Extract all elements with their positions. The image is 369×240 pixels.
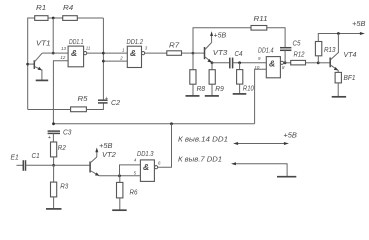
svg-text:R7: R7 bbox=[169, 41, 180, 50]
resistor R7 bbox=[167, 51, 182, 56]
svg-text:C4: C4 bbox=[235, 49, 243, 58]
transistor VT1 bbox=[28, 53, 43, 80]
resistor R2 bbox=[51, 142, 57, 157]
node VT4 collector on rail bbox=[337, 32, 340, 35]
ground (R9) bbox=[205, 95, 219, 97]
svg-text:&: & bbox=[143, 162, 149, 172]
resistor R1 bbox=[35, 16, 48, 21]
svg-text:&: & bbox=[269, 59, 275, 69]
wire junction down to R8 bbox=[192, 53, 194, 70]
wire R6 down bbox=[119, 176, 121, 183]
wire long horizontal bus y=123.3 bbox=[53, 123, 254, 125]
wire from R1/R4 node down to pin13 row bbox=[52, 18, 54, 53]
svg-text:К выв.7 DD1: К выв.7 DD1 bbox=[178, 154, 222, 163]
svg-text:13: 13 bbox=[61, 46, 66, 51]
node VT1 base on left rail bbox=[26, 63, 29, 66]
wire R3 to ground bbox=[53, 197, 55, 209]
resistor R10 bbox=[237, 70, 243, 85]
wire R13 top to +5V rail bbox=[317, 56, 319, 63]
wire C4 to DD1.4 pin9 bbox=[233, 62, 267, 64]
svg-text:DD1.3: DD1.3 bbox=[137, 149, 154, 158]
wire R12 to base node bbox=[306, 62, 319, 64]
ground (BF1) bbox=[332, 96, 346, 98]
wire C5 bottom to output node bbox=[284, 50, 286, 63]
power arrow +5V double bbox=[233, 142, 289, 145]
node C3 top bbox=[52, 122, 55, 125]
node DD1.3 output riser bbox=[170, 122, 173, 125]
capacitor C4 bbox=[230, 58, 233, 69]
wire node down to R3 bbox=[53, 165, 55, 182]
wire emitter down to R9 bbox=[211, 63, 213, 70]
svg-text:BF1: BF1 bbox=[344, 73, 356, 82]
svg-text:C2: C2 bbox=[111, 98, 121, 107]
capacitor C3 bbox=[48, 131, 60, 141]
svg-text:C1: C1 bbox=[32, 151, 40, 160]
op-amp gate DD1.4 bbox=[266, 57, 283, 78]
wire BF1 to ground bbox=[337, 83, 339, 97]
wire R5 to C2 bbox=[86, 103, 103, 110]
transistor VT3 bbox=[193, 43, 212, 63]
node C4/R10 bbox=[238, 61, 241, 64]
wire pin12 input of DD1.1 with drop to C3 column bbox=[53, 61, 68, 124]
wire R6 to ground bbox=[119, 198, 121, 210]
vertical net x=103.4 from top wire down to C2 bbox=[102, 18, 104, 100]
node DD1.4 output bbox=[284, 61, 287, 64]
resistor R8 bbox=[190, 70, 196, 85]
node R6/pin4 riser bbox=[118, 174, 121, 177]
svg-text:R12: R12 bbox=[294, 50, 306, 59]
wire R9 to ground bbox=[211, 84, 213, 96]
resistor R9 bbox=[209, 70, 215, 85]
resistor R12 bbox=[291, 60, 306, 65]
svg-text:+5В: +5В bbox=[352, 19, 366, 28]
svg-text:R1: R1 bbox=[36, 3, 46, 12]
svg-text:R8: R8 bbox=[197, 84, 206, 93]
op-amp gate DD1.1 bbox=[68, 46, 87, 67]
svg-text:R10: R10 bbox=[243, 83, 255, 92]
wire node to VT2 base bbox=[54, 164, 91, 166]
ground (R6) bbox=[112, 209, 127, 211]
svg-text:VT3: VT3 bbox=[213, 48, 228, 57]
node R7/R8/VT3/R11 bbox=[192, 52, 195, 55]
wire top-left loop: y=18 from x27.7 to x103.4 bbox=[28, 18, 104, 110]
node C1/R2/R3/base bbox=[52, 164, 55, 167]
svg-text:C5: C5 bbox=[293, 39, 302, 48]
wire to pin2 DD1.2 bbox=[103, 60, 127, 62]
svg-text:R4: R4 bbox=[63, 3, 73, 12]
svg-text:2: 2 bbox=[119, 56, 123, 61]
capacitor C1 bbox=[23, 160, 25, 171]
ground (R8) bbox=[186, 95, 200, 97]
wire C1 to node bbox=[26, 164, 54, 166]
wire DD1.2 output to R7 bbox=[145, 52, 167, 54]
svg-text:&: & bbox=[130, 48, 136, 58]
resistor R4 bbox=[63, 16, 78, 21]
wire DD1.1 output to vertical bus bbox=[87, 52, 104, 54]
wire node down to R10 bbox=[239, 63, 241, 70]
svg-text:R2: R2 bbox=[58, 143, 67, 152]
wire pin10 drop to long bus bbox=[255, 69, 267, 124]
ground (supply) bbox=[277, 176, 296, 178]
svg-text:DD1.4: DD1.4 bbox=[258, 45, 274, 54]
svg-text:VT4: VT4 bbox=[344, 50, 357, 59]
resistor R11 bbox=[251, 26, 267, 31]
transducer BF1 bbox=[335, 72, 341, 83]
svg-text:R5: R5 bbox=[78, 94, 89, 103]
node out11/in1 bbox=[102, 52, 105, 55]
wire riser to pin4 bbox=[120, 165, 141, 176]
wire pin13 input of DD1.1 bbox=[53, 52, 68, 54]
wire input E1 bbox=[17, 164, 24, 166]
svg-text:DD1.2: DD1.2 bbox=[127, 37, 144, 46]
wire C3 to R2 bbox=[52, 133, 54, 142]
node R12/R13/VT4 bbox=[317, 61, 320, 64]
wire R8 to ground bbox=[192, 84, 194, 96]
svg-text:DD1.1: DD1.1 bbox=[69, 37, 84, 46]
wire R11 to C5 drop bbox=[267, 28, 285, 47]
svg-text:C3: C3 bbox=[63, 128, 72, 137]
svg-text:VT2: VT2 bbox=[102, 150, 117, 159]
op-amp gate DD1.3 bbox=[140, 160, 157, 182]
svg-text:R13: R13 bbox=[324, 45, 336, 54]
resistor R3 bbox=[51, 182, 57, 197]
+5V arrow (right rail) bbox=[360, 32, 365, 35]
node collector/pin13 bbox=[52, 52, 55, 55]
op-amp gate DD1.2 bbox=[127, 46, 144, 67]
capacitor C2 bbox=[98, 96, 109, 103]
ground (R10) bbox=[233, 93, 247, 95]
+5V arrow (VT2 collector) bbox=[95, 148, 98, 158]
transistor VT2 bbox=[90, 157, 99, 176]
svg-text:VT1: VT1 bbox=[36, 39, 51, 48]
resistor R5 bbox=[71, 107, 87, 112]
wire DD1.3 output up to bus bbox=[158, 124, 172, 167]
ground (VT1 emitter) bbox=[36, 79, 49, 81]
wire VT1 collector to node bbox=[42, 52, 53, 54]
wire emitter to C4 bbox=[212, 62, 230, 64]
node between R1 and R4 bbox=[52, 17, 55, 20]
capacitor C5 bbox=[280, 48, 291, 51]
svg-text:11: 11 bbox=[86, 45, 91, 50]
power arrow to ground bbox=[231, 162, 287, 176]
svg-text:E1: E1 bbox=[11, 153, 19, 162]
wire emitter row to DD1.3 pin5 bbox=[99, 175, 140, 177]
svg-text:К выв.14 DD1: К выв.14 DD1 bbox=[178, 134, 228, 143]
ground (R3) bbox=[46, 208, 62, 210]
wire emitter to BF1 bbox=[337, 70, 339, 72]
svg-text:R11: R11 bbox=[254, 14, 268, 23]
wire R10 to ground bbox=[239, 84, 241, 94]
node VT3 emitter bbox=[211, 61, 214, 64]
resistor R13 bbox=[315, 42, 321, 56]
transistor VT4 bbox=[318, 34, 338, 71]
node in2 bbox=[102, 60, 105, 63]
svg-text:+5В: +5В bbox=[283, 131, 297, 140]
svg-text:+5В: +5В bbox=[99, 141, 113, 150]
svg-text:R3: R3 bbox=[60, 182, 69, 191]
wire R7 to junction bbox=[182, 52, 194, 54]
resistor R6 bbox=[117, 182, 123, 198]
svg-text:R9: R9 bbox=[215, 84, 224, 93]
+5V arrow (VT3 collector) bbox=[210, 31, 213, 42]
wire output node to R12 bbox=[284, 62, 291, 64]
svg-text:+5В: +5В bbox=[214, 30, 227, 39]
wire to pin1 DD1.2 bbox=[103, 52, 127, 54]
svg-text:&: & bbox=[71, 48, 77, 58]
wire bottom of left loop y=109.5 bbox=[28, 109, 71, 111]
svg-text:R6: R6 bbox=[130, 188, 139, 197]
svg-text:12: 12 bbox=[60, 55, 65, 60]
wire junction up and right to R11 bbox=[193, 28, 251, 53]
wire R2 to C1 row bbox=[53, 157, 55, 165]
